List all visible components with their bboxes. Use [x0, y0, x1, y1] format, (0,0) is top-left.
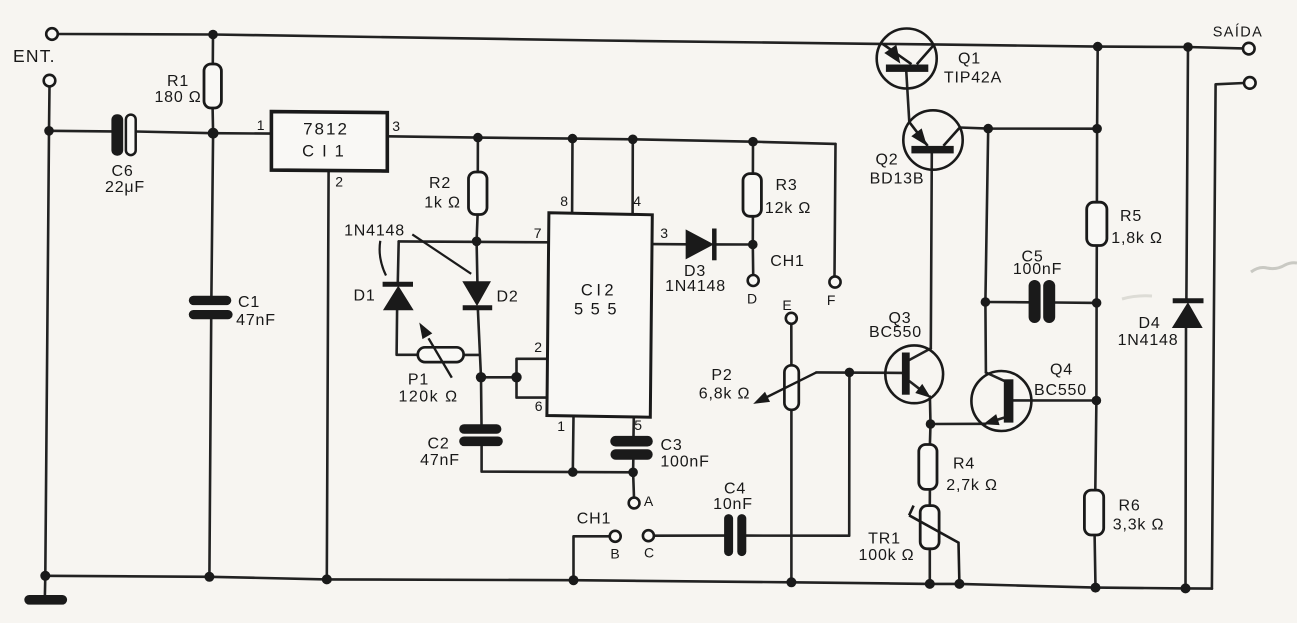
wire top supply rail from ENT to SAIDA	[58, 34, 1243, 48]
resistor R3	[743, 174, 761, 217]
junction Q3 base C4 node	[845, 368, 855, 378]
wire Q3 node to Q4 emitter	[931, 422, 986, 425]
capacitor C3 plate 2	[611, 449, 653, 460]
terminal D	[748, 275, 759, 286]
diode D3 triangle	[686, 231, 712, 259]
diode D3 cathode bar	[712, 229, 717, 261]
wire node to CI1 pin 1	[213, 132, 271, 135]
junction pin 2 6 jog node	[511, 372, 521, 382]
svg-text:6: 6	[535, 398, 544, 414]
junction Q4 base right rail	[1092, 396, 1102, 406]
wire C2 bottom to pin1/C3 line	[482, 446, 633, 472]
svg-text:2: 2	[335, 174, 344, 190]
svg-text:100nF: 100nF	[660, 454, 709, 471]
svg-text:C2: C2	[427, 436, 449, 453]
transistor Q1 collector diagonal	[917, 45, 934, 64]
junction ground rail at CI1 pin 2	[322, 574, 332, 584]
resistor R2	[469, 172, 488, 215]
svg-text:100nF: 100nF	[1013, 261, 1062, 278]
wire Q2 base lead down to Q3 collector	[931, 153, 932, 348]
svg-text:2: 2	[534, 339, 543, 355]
svg-text:47nF: 47nF	[236, 312, 276, 329]
wire R3 bottom to node	[751, 216, 754, 244]
svg-text:1: 1	[257, 117, 266, 133]
svg-text:1,8k Ω: 1,8k Ω	[1111, 230, 1162, 247]
svg-text:C3: C3	[660, 437, 682, 454]
junction rail at R2	[473, 133, 483, 143]
svg-text:BC550: BC550	[1034, 382, 1087, 399]
wire node down to capacitor C1	[211, 133, 213, 296]
svg-text:CH1: CH1	[577, 511, 611, 528]
potentiometer P2 wiper arrow shaft	[759, 372, 817, 401]
junction P1 C2 node	[476, 372, 486, 382]
junction D3 R3 node	[748, 240, 758, 250]
svg-text:Q2: Q2	[876, 152, 899, 169]
wire C5 node to Q4 base node	[1095, 303, 1098, 401]
svg-text:TIP42A: TIP42A	[944, 70, 1002, 87]
wire pin 7 horizontal	[399, 240, 549, 244]
transistor Q4 emitter arrowhead	[985, 415, 999, 425]
svg-text:180 Ω: 180 Ω	[154, 89, 201, 106]
capacitor C5 plate 2	[1043, 280, 1055, 323]
wire Q4 collector vertical up to Q2 chord node	[985, 129, 988, 373]
svg-text:R1: R1	[167, 73, 189, 90]
svg-text:F: F	[827, 292, 836, 308]
wire R6 to ground rail	[1093, 535, 1097, 588]
junction ground rail at ENT	[40, 571, 50, 581]
wire corner down to terminal F	[835, 144, 836, 277]
transistor Q2 emitter diagonal	[909, 122, 927, 146]
svg-text:C1: C1	[238, 294, 260, 311]
potentiometer P1 body	[418, 347, 464, 362]
resistor R4	[919, 445, 937, 490]
junction top rail at D4	[1183, 42, 1193, 52]
wire rail down to CI2 pin 4	[631, 139, 634, 214]
wire corner down to diode D1 cathode	[396, 241, 400, 282]
wire D4 anode down to ground rail	[1184, 328, 1187, 589]
diode D2 triangle	[464, 282, 490, 305]
svg-text:R2: R2	[429, 175, 451, 192]
svg-text:BD13B: BD13B	[870, 171, 925, 188]
scan artifact streak left of D4	[1122, 296, 1152, 299]
terminal A	[629, 498, 640, 509]
diode D2 cathode bar	[463, 305, 493, 310]
wire D2 cathode down to node	[478, 310, 481, 378]
transistor Q2 circle	[903, 110, 962, 169]
svg-text:R3: R3	[775, 177, 797, 194]
transistor Q1 emitter arrowhead	[885, 46, 899, 63]
transistor Q1 circle	[877, 29, 937, 89]
terminal SAIDA top	[1243, 43, 1255, 55]
svg-text:ENT.: ENT.	[13, 46, 56, 66]
diode D1 leader line	[380, 241, 386, 276]
regulator CI1 7812 box	[271, 112, 387, 171]
svg-text:1k Ω: 1k Ω	[424, 195, 461, 212]
wire terminal B left and down to ground rail	[574, 536, 610, 580]
wire D1 anode to P1 left end	[397, 310, 418, 355]
wire ground rail	[45, 576, 1212, 589]
wire CI2 pin 1 down	[571, 417, 574, 472]
transistor Q3 base bar	[902, 353, 910, 395]
terminal SAIDA bottom	[1244, 77, 1256, 89]
svg-text:7812: 7812	[303, 120, 349, 139]
transistor Q2 emitter arrowhead	[912, 129, 926, 144]
wire Q4 base node down to resistor R6	[1095, 401, 1096, 491]
wire CI1 pin 3 output rail to corner above F	[388, 136, 836, 144]
wire rail node down to resistor R3	[752, 142, 755, 174]
terminal B	[610, 531, 621, 542]
svg-text:555: 555	[574, 301, 624, 319]
svg-text:C: C	[644, 545, 655, 561]
capacitor C6 negative plate	[111, 114, 123, 156]
svg-text:P2: P2	[711, 367, 732, 384]
svg-text:R6: R6	[1118, 498, 1140, 515]
trimmer TR1 wiper diagonal and lead to ground rail	[909, 515, 959, 584]
svg-text:P1: P1	[408, 372, 429, 389]
svg-text:1: 1	[557, 418, 566, 434]
trimmer TR1 wiper tick	[909, 506, 914, 516]
resistor R6	[1084, 490, 1103, 535]
svg-text:R5: R5	[1120, 208, 1142, 225]
capacitor C5 plate 1	[1029, 280, 1041, 323]
potentiometer P2 body	[784, 365, 798, 410]
wire ENT lower terminal down left side to ground rail	[45, 87, 49, 576]
wire Q4 collector diagonal	[986, 373, 1004, 381]
resistor R5	[1087, 202, 1107, 245]
svg-text:7: 7	[534, 225, 543, 241]
svg-text:E: E	[782, 297, 792, 313]
wire rail down to CI2 pin 8	[571, 139, 574, 214]
wire rail to resistor R2	[476, 138, 479, 172]
diode D2 leader line	[412, 234, 471, 273]
wire C5 right plate to right rail	[1055, 301, 1096, 304]
capacitor C1 plate 2	[189, 310, 233, 319]
terminal ENT bottom	[44, 75, 56, 87]
wire Q4 emitter diagonal	[989, 418, 1004, 423]
wire ground stub	[44, 576, 47, 595]
transistor Q3 emitter arrowhead	[916, 385, 930, 397]
wire R4 to trimmer TR1	[928, 489, 931, 505]
wire node down to capacitor C2	[480, 377, 483, 424]
wire node down to resistor R4	[929, 424, 932, 445]
junction Q2 chord at Q4 collector	[983, 124, 993, 134]
junction ground rail at TR1 wiper	[954, 579, 964, 589]
svg-text:B: B	[610, 546, 620, 562]
junction ground rail at D4	[1181, 583, 1191, 593]
wire SAIDA lower terminal down right side	[1212, 83, 1244, 589]
junction ground rail at B	[569, 575, 579, 585]
svg-text:C4: C4	[724, 481, 746, 498]
transistor Q1 base bar	[886, 65, 928, 72]
transistor Q2 collector diagonal	[943, 128, 959, 146]
trimmer TR1 body	[920, 506, 939, 549]
svg-text:CI2: CI2	[581, 282, 617, 300]
svg-text:Q1: Q1	[958, 51, 981, 68]
wire pin7 node down to diode D2	[475, 241, 478, 281]
wire top rail node down to diode D4	[1186, 47, 1188, 298]
junction pin 1 node	[568, 467, 578, 477]
svg-text:12k Ω: 12k Ω	[765, 200, 811, 217]
terminal C	[643, 530, 654, 541]
svg-text:3: 3	[660, 225, 669, 241]
junction rail at R3	[748, 137, 758, 147]
capacitor C2 plate 1	[459, 424, 501, 434]
junction ground rail at TR1	[925, 579, 935, 589]
junction rail at pin 4	[628, 135, 638, 145]
junction C5 right node	[1092, 298, 1102, 308]
wire R5 to C5 node	[1095, 246, 1098, 303]
junction top rail at right rail	[1093, 42, 1103, 52]
wire TR1 bottom to ground rail	[928, 549, 931, 584]
svg-text:5: 5	[634, 417, 643, 433]
wire node down to terminal D	[751, 245, 754, 276]
capacitor C4 plate 2	[737, 514, 746, 556]
wire pin 2 / pin 6 jog	[517, 359, 549, 398]
terminal F	[829, 276, 840, 287]
wire terminal C to capacitor C4	[654, 534, 724, 537]
junction Q2 chord at right rail	[1092, 124, 1102, 134]
svg-text:22μF: 22μF	[105, 179, 145, 196]
svg-text:D: D	[747, 291, 758, 307]
svg-text:120k Ω: 120k Ω	[398, 389, 458, 406]
capacitor C2 plate 2	[459, 437, 503, 447]
svg-text:6,8k Ω: 6,8k Ω	[699, 386, 750, 403]
capacitor C4 plate 1	[724, 514, 733, 556]
wire Q4 collector line to C5 left plate	[985, 301, 1028, 304]
diode D4 cathode bar	[1173, 298, 1204, 303]
svg-text:100k Ω: 100k Ω	[859, 547, 915, 564]
potentiometer P1 wiper arrowhead	[420, 324, 431, 338]
wire C6 right plate to R1 bottom node	[136, 132, 213, 134]
svg-text:47nF: 47nF	[420, 452, 460, 469]
ground symbol	[24, 595, 67, 605]
junction pin 7 node	[472, 237, 482, 247]
wire Q4 base to right rail	[1013, 399, 1096, 402]
svg-text:D1: D1	[353, 288, 375, 305]
svg-text:1N4148: 1N4148	[344, 223, 405, 240]
svg-text:3: 3	[392, 118, 401, 134]
wire Q1 base lead down to Q2	[906, 72, 909, 122]
wire P1 right end to D2 branch	[464, 354, 480, 357]
transistor Q4 base bar	[1004, 379, 1014, 422]
transistor Q4 circle	[971, 371, 1031, 431]
svg-text:TR1: TR1	[868, 531, 901, 548]
wire jog node to P1 node	[481, 376, 517, 379]
junction C3 node	[628, 468, 638, 478]
svg-text:4: 4	[633, 193, 642, 209]
wire top rail to resistor R1	[212, 35, 215, 65]
wire terminal E down to potentiometer P2	[790, 324, 793, 366]
wire top rail down right rail to R5	[1096, 47, 1099, 203]
junction Q3 emitter R4 node	[926, 419, 936, 429]
potentiometer P1 wiper arrow shaft	[429, 338, 452, 377]
svg-text:R4: R4	[953, 456, 975, 473]
wire C1 to ground rail	[209, 319, 211, 577]
wire R1 to node	[211, 108, 214, 133]
potentiometer P2 wiper arrowhead	[755, 393, 769, 403]
capacitor C1 plate 1	[189, 296, 232, 305]
scan artifact squiggle right edge	[1251, 263, 1297, 272]
wire Q3 collector diagonal	[910, 348, 931, 360]
wire R2 to pin7 node	[477, 214, 478, 241]
junction C5 left node	[981, 297, 991, 307]
wire D3 cathode to R3 node	[717, 243, 753, 246]
capacitor C6 positive plate	[126, 115, 136, 156]
junction ground rail at P2	[786, 577, 796, 587]
diode D1 cathode bar	[383, 282, 413, 287]
diode D4 triangle	[1173, 304, 1201, 328]
wire C4 right up to Q3 base node	[746, 372, 849, 535]
junction node C6 R1 CI1	[208, 128, 219, 139]
svg-text:10nF: 10nF	[713, 496, 753, 513]
terminal E	[786, 313, 797, 324]
transistor Q3 circle	[885, 345, 943, 403]
svg-text:1N4148: 1N4148	[665, 278, 726, 295]
capacitor C3 plate 1	[610, 436, 653, 447]
wire Q3 emitter down to node	[929, 397, 932, 425]
svg-text:D2: D2	[496, 289, 518, 306]
junction ground rail at R6	[1091, 583, 1101, 593]
wire Q3 emitter diagonal	[910, 381, 925, 393]
svg-text:D4: D4	[1138, 315, 1160, 332]
svg-text:3,3k Ω: 3,3k Ω	[1113, 517, 1164, 534]
resistor R1	[204, 64, 221, 108]
terminal ENT top	[46, 28, 58, 40]
junction top rail at R1	[208, 30, 218, 40]
wire CI2 pin 5 down to C3	[632, 417, 635, 436]
svg-text:SAÍDA: SAÍDA	[1213, 24, 1264, 41]
junction ENT branch	[44, 126, 54, 136]
svg-text:A: A	[644, 493, 654, 509]
IC CI2 555 box	[547, 213, 652, 417]
junction rail at pin 8	[568, 134, 578, 144]
svg-text:2,7k Ω: 2,7k Ω	[946, 477, 997, 494]
wire P2 wiper node to Q3 base	[816, 371, 902, 374]
wire node to C6 left plate	[49, 130, 112, 133]
wire node down to terminal A	[632, 472, 636, 497]
svg-text:C6: C6	[111, 163, 133, 180]
svg-text:CH1: CH1	[770, 253, 804, 270]
diode D1 triangle	[384, 287, 412, 310]
svg-text:Q4: Q4	[1050, 362, 1073, 379]
svg-text:BC550: BC550	[869, 324, 922, 341]
wire C3 bottom to node	[632, 460, 635, 473]
junction ground rail at C1	[204, 572, 214, 582]
transistor Q1 emitter diagonal	[883, 44, 912, 64]
svg-text:CI1: CI1	[302, 143, 352, 161]
wire Q2 chord line to right nodes	[960, 128, 1097, 129]
wire CI2 pin 3 to diode D3	[651, 243, 686, 246]
transistor Q2 base bar	[911, 146, 953, 154]
wire CI1 pin 2 down to ground rail	[327, 171, 329, 580]
svg-text:8: 8	[560, 193, 569, 209]
svg-text:1N4148: 1N4148	[1118, 332, 1179, 349]
wire P2 bottom down to ground rail	[790, 410, 793, 582]
